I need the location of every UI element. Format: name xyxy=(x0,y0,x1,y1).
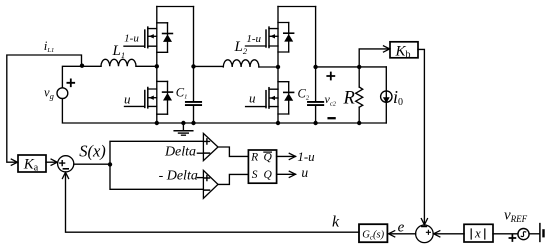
svg-text:1-u: 1-u xyxy=(246,33,261,45)
svg-text:R: R xyxy=(343,89,355,109)
svg-text:k: k xyxy=(332,213,340,230)
svg-text:Q: Q xyxy=(264,152,273,164)
svg-text:L1: L1 xyxy=(112,43,126,60)
svg-text:vg: vg xyxy=(44,86,54,102)
svg-text:1-u: 1-u xyxy=(297,149,315,164)
svg-text:Ka: Ka xyxy=(23,157,39,174)
svg-text:C2: C2 xyxy=(298,87,310,102)
svg-text:Kb: Kb xyxy=(394,43,410,60)
svg-text:u: u xyxy=(124,91,131,106)
svg-text:Gc(s): Gc(s) xyxy=(362,230,384,242)
svg-text:C1: C1 xyxy=(176,86,188,101)
svg-text:R: R xyxy=(250,152,258,164)
svg-text:e: e xyxy=(398,219,405,235)
svg-text:u: u xyxy=(301,165,308,180)
svg-text:S(x): S(x) xyxy=(79,142,106,161)
svg-text:1-u: 1-u xyxy=(124,32,139,44)
svg-text:Q: Q xyxy=(264,169,273,181)
svg-text:x: x xyxy=(474,226,481,241)
svg-text:Delta: Delta xyxy=(164,144,196,159)
svg-text:- Delta: - Delta xyxy=(159,168,198,183)
svg-text:S: S xyxy=(252,169,258,181)
svg-text:i0: i0 xyxy=(393,87,403,108)
svg-text:vREF: vREF xyxy=(504,208,528,224)
svg-text:iL1: iL1 xyxy=(44,38,55,54)
svg-text:u: u xyxy=(249,91,256,106)
svg-text:vc2: vc2 xyxy=(325,92,337,108)
